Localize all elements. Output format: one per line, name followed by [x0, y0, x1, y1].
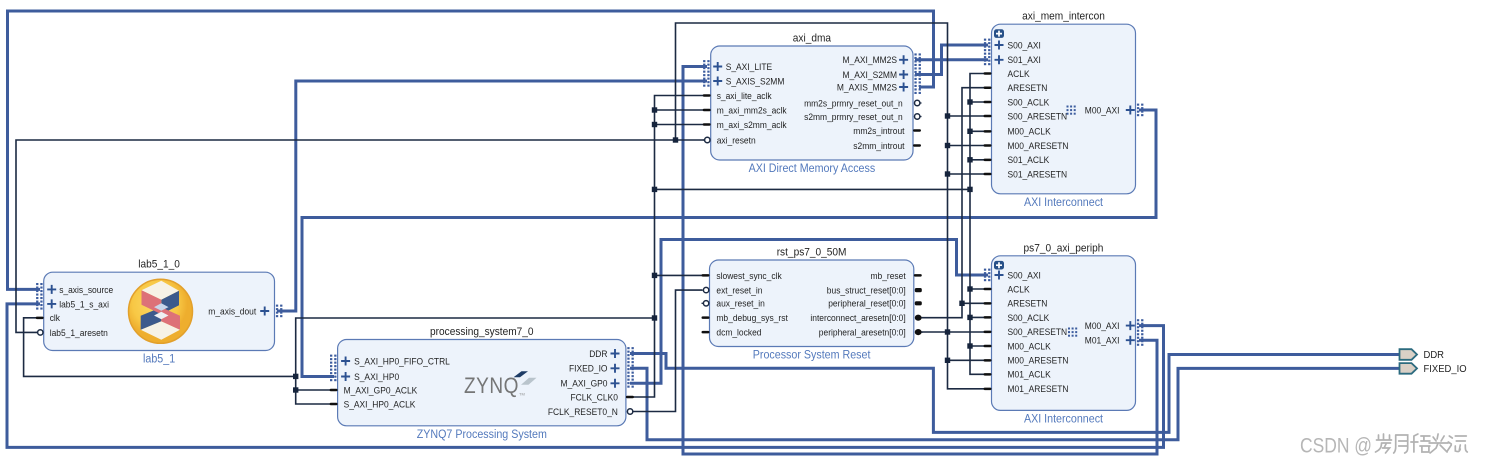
junction clk periph M00_ACLK	[967, 343, 972, 348]
junction rst periph M00_ARESETN	[945, 358, 950, 363]
svg-text:mm2s_prmry_reset_out_n: mm2s_prmry_reset_out_n	[804, 98, 903, 109]
svg-text:s2mm_prmry_reset_out_n: s2mm_prmry_reset_out_n	[804, 112, 903, 123]
ps7_0_axi_periph M00_AXI port	[1068, 328, 1070, 330]
svg-text:lab5_1: lab5_1	[143, 354, 175, 366]
junction clk M00_ACLK	[967, 129, 972, 134]
axi_dma left ports	[713, 62, 722, 71]
svg-text:Processor System Reset: Processor System Reset	[753, 350, 871, 362]
axi_mem_intercon M00_AXI port	[1067, 106, 1069, 108]
junction clk S00_ACLK	[967, 99, 972, 104]
svg-text:DDR: DDR	[1424, 349, 1445, 361]
svg-text:ext_reset_in: ext_reset_in	[716, 286, 762, 297]
wire presetn rail low	[948, 332, 989, 389]
junction clk slowest	[652, 273, 657, 278]
wire mem M00_AXI to S_AXI_HP0	[302, 110, 1156, 377]
wire periph M00_AXI to lab5_1_s_axi	[7, 304, 1164, 448]
wire DDR net	[630, 354, 1399, 433]
svg-text:clk: clk	[50, 313, 60, 324]
svg-text:S_AXIS_S2MM: S_AXIS_S2MM	[726, 76, 785, 87]
svg-text:FIXED_IO: FIXED_IO	[569, 364, 608, 375]
wire iaresetn to periph ARESETN	[962, 302, 988, 304]
junction rst axi_resetn	[673, 137, 678, 142]
svg-text:s_axi_lite_aclk: s_axi_lite_aclk	[717, 91, 772, 102]
svg-text:M_AXI_S2MM: M_AXI_S2MM	[843, 70, 898, 81]
svg-text:S_AXI_HP0_ACLK: S_AXI_HP0_ACLK	[344, 399, 416, 410]
lab5_1_0 left ports	[47, 285, 56, 294]
wire clock crosslink	[655, 188, 971, 190]
wire presetn to S01_ARESETN mem	[948, 173, 989, 175]
svg-text:M01_ACLK: M01_ACLK	[1008, 370, 1052, 381]
wire clock to S01_ACLK mem	[970, 159, 988, 161]
wire clock to S00_ACLK mem	[970, 101, 988, 103]
svg-text:m_axi_mm2s_aclk: m_axi_mm2s_aclk	[717, 105, 787, 116]
svg-text:m_axi_s2mm_aclk: m_axi_s2mm_aclk	[717, 120, 787, 131]
svg-text:mb_debug_sys_rst: mb_debug_sys_rst	[716, 313, 788, 324]
svg-text:M00_AXI: M00_AXI	[1085, 105, 1120, 116]
axi_mem_intercon left ports	[995, 41, 1004, 50]
processing_system7_0 right ports	[611, 349, 620, 358]
svg-text:FCLK_CLK0: FCLK_CLK0	[571, 392, 618, 403]
svg-text:AXI Interconnect: AXI Interconnect	[1024, 413, 1104, 425]
svg-text:M00_ACLK: M00_ACLK	[1008, 341, 1052, 352]
svg-text:M00_ACLK: M00_ACLK	[1008, 127, 1052, 138]
svg-text:axi_resetn: axi_resetn	[717, 135, 756, 146]
svg-text:slowest_sync_clk: slowest_sync_clk	[716, 271, 781, 282]
junction clk westlink	[652, 315, 657, 320]
svg-text:s2mm_introut: s2mm_introut	[853, 141, 904, 152]
svg-text:dcm_locked: dcm_locked	[716, 328, 761, 339]
svg-text:ARESETN: ARESETN	[1008, 299, 1048, 310]
svg-text:CSDN @: CSDN @	[1300, 435, 1372, 458]
wire clock trunk FCLK_CLK0	[631, 96, 707, 398]
svg-text:S00_ACLK: S00_ACLK	[1008, 97, 1050, 108]
svg-text:mb_reset: mb_reset	[871, 271, 906, 282]
junction rst main cross	[945, 329, 950, 334]
svg-text:lab5_1_aresetn: lab5_1_aresetn	[50, 328, 108, 339]
svg-text:ZYNQ: ZYNQ	[464, 373, 519, 398]
svg-text:m_axis_dout: m_axis_dout	[208, 306, 256, 317]
svg-text:bus_struct_reset[0:0]: bus_struct_reset[0:0]	[827, 286, 906, 297]
wire M_AXIS_MM2S to s_axis_source	[8, 11, 934, 289]
rst_ps7_0_50M right ports	[914, 274, 922, 277]
lab5_1_0 m_axis_dout port	[276, 305, 278, 307]
wire clock west link	[296, 318, 655, 404]
wire M_AXI_S2MM to S00_AXI	[915, 45, 988, 75]
processing_system7_0 left ports	[341, 357, 350, 366]
junction iaresetn periph ARESETN	[959, 301, 964, 306]
svg-text:M00_ARESETN: M00_ARESETN	[1008, 141, 1069, 152]
junction clk mm2s_aclk	[652, 107, 657, 112]
svg-text:axi_mem_intercon: axi_mem_intercon	[1022, 11, 1105, 23]
svg-text:M01_ARESETN: M01_ARESETN	[1008, 384, 1069, 395]
svg-text:S00_ARESETN: S00_ARESETN	[1008, 111, 1068, 122]
junction clk periph ACLK	[967, 286, 972, 291]
junction clk S01_ACLK	[967, 157, 972, 162]
svg-text:lab5_1_s_axi: lab5_1_s_axi	[59, 299, 109, 310]
wire fclk_reset net	[633, 290, 702, 411]
wire M_AXI_GP0 to periph S00_AXI	[630, 240, 988, 384]
wire clock to m_axi_s2mm_aclk	[655, 124, 708, 126]
junction clk gp0_aclk	[293, 387, 298, 392]
wire iaresetn main	[918, 88, 988, 318]
rst_ps7_0_50M left ports	[702, 274, 710, 277]
svg-text:axi_dma: axi_dma	[793, 33, 832, 45]
ps7_0_axi_periph plus badge	[994, 261, 1004, 270]
svg-text:s_axis_source: s_axis_source	[59, 285, 113, 296]
wire clock to periph ACLK	[970, 288, 988, 290]
junction clk crosslink L	[652, 187, 657, 192]
block lab5_1_0	[44, 272, 275, 350]
svg-text:FIXED_IO: FIXED_IO	[1424, 363, 1467, 375]
svg-text:lab5_1_0: lab5_1_0	[138, 259, 180, 271]
svg-text:processing_system7_0: processing_system7_0	[430, 326, 534, 338]
svg-text:FCLK_RESET0_N: FCLK_RESET0_N	[548, 407, 618, 418]
svg-text:ARESETN: ARESETN	[1008, 83, 1048, 94]
junction clk lab clk	[293, 374, 298, 379]
svg-text:interconnect_aresetn[0:0]: interconnect_aresetn[0:0]	[810, 313, 905, 324]
wire presetn to S00_ARESETN mem	[948, 115, 989, 117]
svg-text:rst_ps7_0_50M: rst_ps7_0_50M	[777, 247, 847, 259]
wire presetn west	[16, 140, 707, 332]
svg-text:mm2s_introut: mm2s_introut	[853, 126, 904, 137]
svg-text:ZYNQ7 Processing System: ZYNQ7 Processing System	[417, 429, 547, 441]
block processing_system7_0	[338, 340, 626, 426]
axi_dma right ports	[899, 55, 908, 64]
junction rst S00_ARESETN	[945, 113, 950, 118]
wire clock to M00_ACLK mem	[970, 130, 988, 132]
wire FIXED_IO net	[630, 368, 1399, 439]
svg-text:S_AXI_HP0: S_AXI_HP0	[354, 372, 399, 383]
svg-text:M01_AXI: M01_AXI	[1085, 336, 1120, 347]
wire clock to M_AXI_GP0_ACLK	[296, 389, 334, 391]
svg-text:M00_ARESETN: M00_ARESETN	[1008, 356, 1069, 367]
svg-text:S_AXI_LITE: S_AXI_LITE	[726, 62, 773, 73]
svg-text:DDR: DDR	[589, 349, 607, 360]
wire presetn rail	[676, 23, 948, 332]
junction rst S01_ARESETN	[945, 171, 950, 176]
svg-text:M_AXIS_MM2S: M_AXIS_MM2S	[837, 82, 897, 93]
block axi_mem_intercon	[992, 24, 1136, 194]
svg-text:peripheral_reset[0:0]: peripheral_reset[0:0]	[828, 299, 906, 310]
svg-text:S00_AXI: S00_AXI	[1008, 270, 1041, 281]
svg-text:S01_ACLK: S01_ACLK	[1008, 155, 1050, 166]
wire clock to slowest_sync_clk	[655, 274, 706, 276]
wire clock rail right	[970, 74, 988, 375]
block ps7_0_axi_periph	[992, 256, 1136, 411]
svg-text:S01_AXI: S01_AXI	[1008, 55, 1041, 66]
svg-text:M_AXI_GP0_ACLK: M_AXI_GP0_ACLK	[344, 385, 418, 396]
ps7_0_axi_periph M01_AXI port	[1126, 336, 1135, 345]
junction clk s2mm_aclk	[652, 122, 657, 127]
svg-text:S00_AXI: S00_AXI	[1008, 40, 1041, 51]
svg-text:ps7_0_axi_periph: ps7_0_axi_periph	[1024, 242, 1104, 254]
ps7_0_axi_periph left ports	[995, 271, 1004, 280]
wire presetn to periph M00_ARESETN	[948, 359, 989, 361]
wire clock to periph M00_ACLK	[970, 345, 988, 347]
svg-text:peripheral_aresetn[0:0]: peripheral_aresetn[0:0]	[819, 328, 906, 339]
svg-text:TM: TM	[519, 392, 525, 397]
svg-text:AXI Direct Memory Access: AXI Direct Memory Access	[749, 163, 876, 175]
wire clock to lab clk	[24, 318, 296, 377]
wire clock to periph S00_ACLK	[970, 316, 988, 318]
svg-text:S00_ACLK: S00_ACLK	[1008, 313, 1050, 324]
external port FIXED_IO	[1400, 363, 1418, 374]
svg-text:aux_reset_in: aux_reset_in	[716, 299, 764, 310]
junction clk periph S00_ACLK	[967, 315, 972, 320]
axi_mem_intercon plus badge	[994, 29, 1004, 38]
wire presetn to M00_ARESETN mem	[948, 145, 989, 147]
block axi_dma	[711, 46, 913, 160]
wire clock to m_axi_mm2s_aclk	[655, 109, 708, 111]
junction rst M00_ARESETN	[945, 143, 950, 148]
wire periph M01_AXI to S_AXI_LITE	[683, 67, 1157, 455]
wire m_axis_dout to S_AXIS_S2MM	[277, 81, 707, 311]
wire presetn main	[918, 331, 988, 333]
wire M_AXI_MM2S to S01_AXI	[915, 58, 988, 61]
svg-text:M00_AXI: M00_AXI	[1085, 321, 1120, 332]
svg-text:ACLK: ACLK	[1008, 284, 1031, 295]
block rst_ps7_0_50M	[710, 260, 914, 347]
svg-text:AXI Interconnect: AXI Interconnect	[1024, 197, 1104, 209]
external port DDR	[1400, 349, 1418, 360]
svg-text:S00_ARESETN: S00_ARESETN	[1008, 327, 1068, 338]
svg-text:S_AXI_HP0_FIFO_CTRL: S_AXI_HP0_FIFO_CTRL	[354, 356, 450, 367]
junction clk crosslink R	[967, 187, 972, 192]
svg-text:S01_ARESETN: S01_ARESETN	[1008, 169, 1068, 180]
svg-text:M_AXI_GP0: M_AXI_GP0	[561, 379, 608, 390]
svg-text:ACLK: ACLK	[1008, 69, 1031, 80]
svg-text:M_AXI_MM2S: M_AXI_MM2S	[843, 55, 898, 66]
